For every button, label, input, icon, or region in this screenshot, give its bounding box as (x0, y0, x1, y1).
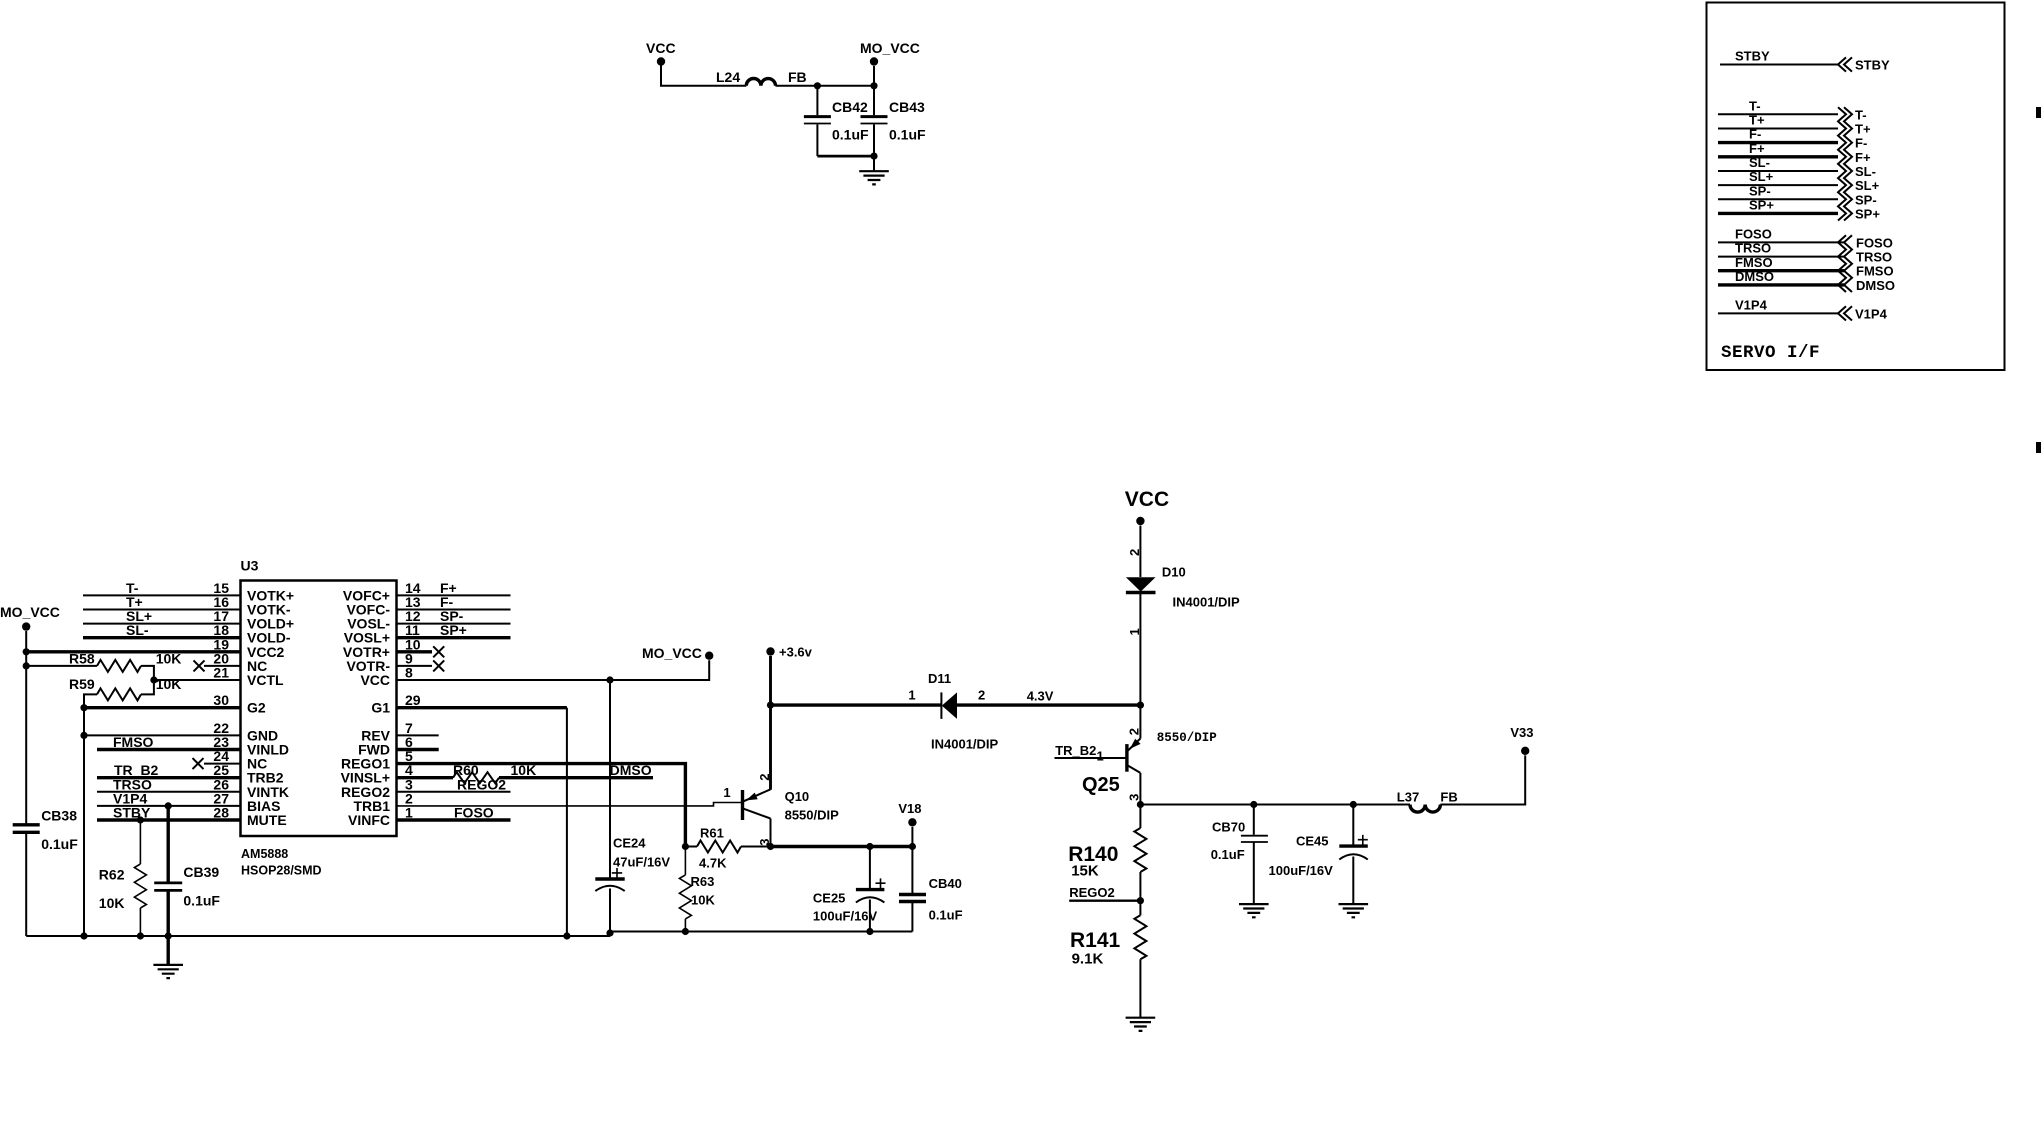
svg-text:SL-: SL- (1855, 164, 1876, 179)
svg-text:L37: L37 (1397, 790, 1419, 805)
pin 17 wire / net SL+ (83, 608, 241, 624)
svg-text:4.7K: 4.7K (699, 856, 727, 871)
svg-text:IN4001/DIP: IN4001/DIP (931, 737, 999, 752)
svg-text:15K: 15K (1071, 863, 1099, 880)
svg-text:G2: G2 (247, 700, 266, 716)
pin 20 no-connect (194, 660, 241, 671)
svg-text:0.1uF: 0.1uF (1211, 847, 1245, 862)
svg-text:F-: F- (1855, 136, 1867, 151)
node V33 (1510, 725, 1533, 755)
right pin numbers (405, 580, 421, 821)
svg-text:1: 1 (405, 805, 413, 821)
net SL- (1718, 155, 1876, 179)
svg-text:10K: 10K (156, 676, 182, 692)
svg-text:HSOP28/SMD: HSOP28/SMD (241, 864, 322, 878)
node MO_VCC (860, 40, 920, 86)
wire VCC to L24 (661, 66, 746, 86)
svg-text:SP+: SP+ (1855, 206, 1880, 221)
pin 23 wire / net FMSO (97, 734, 241, 750)
svg-text:0.1uF: 0.1uF (183, 893, 220, 909)
svg-text:IN4001/DIP: IN4001/DIP (1173, 595, 1241, 610)
net F- (1718, 127, 1867, 151)
pin 2 wire to Q10 base (397, 803, 743, 806)
wire +3.6v down to Q10 (767, 656, 774, 790)
resistor R59 (69, 676, 181, 708)
svg-text:V1P4: V1P4 (1735, 298, 1768, 313)
svg-text:SP-: SP- (1855, 192, 1877, 207)
net TRSO (1718, 241, 1892, 265)
svg-text:1: 1 (908, 688, 915, 703)
svg-text:100uF/16V: 100uF/16V (1269, 863, 1334, 878)
pin 4 wire / resistor R60 / net DMSO (397, 762, 654, 783)
ground R141 (1126, 1018, 1156, 1031)
pin 14 wire / net F+ (397, 580, 511, 596)
node MO_VCC left (0, 604, 60, 631)
svg-text:DMSO: DMSO (1735, 269, 1774, 284)
resistor R63 (679, 847, 715, 932)
pin 11 wire / net SP+ (397, 622, 511, 638)
wire L24 to MO_VCC (776, 85, 875, 87)
junction (814, 82, 821, 89)
pin 15 wire / net T- (83, 580, 241, 596)
wire bottom (817, 155, 874, 158)
node VCC right (1125, 488, 1169, 525)
junction REGO1/R61/R63 (682, 843, 689, 850)
svg-text:FOSO: FOSO (1856, 235, 1893, 250)
resistor R58 (26, 651, 181, 684)
svg-text:SL-: SL- (126, 622, 149, 638)
svg-text:STBY: STBY (1855, 58, 1890, 73)
wire L37 to V33 (1440, 755, 1525, 804)
svg-text:VCTL: VCTL (247, 672, 284, 688)
svg-text:30: 30 (213, 692, 229, 708)
pin 19 wire (26, 650, 240, 653)
svg-text:SP+: SP+ (440, 622, 467, 638)
pin 12 wire / net SP- (397, 608, 511, 624)
svg-text:8550/DIP: 8550/DIP (1157, 731, 1217, 745)
svg-text:F+: F+ (1855, 150, 1871, 165)
ground CE45 (1339, 904, 1369, 917)
capacitor CE25 (813, 847, 886, 932)
svg-text:CB40: CB40 (929, 876, 962, 891)
svg-text:1: 1 (1127, 628, 1142, 635)
capacitor CB39 (154, 802, 220, 936)
svg-text:FMSO: FMSO (1735, 255, 1773, 270)
svg-text:DMSO: DMSO (1856, 278, 1895, 293)
svg-text:R62: R62 (99, 867, 125, 883)
svg-text:V33: V33 (1510, 725, 1533, 740)
net TR_B2 base wire (1055, 743, 1127, 764)
svg-text:0.1uF: 0.1uF (929, 908, 963, 923)
pin 28 wire / net STBY (97, 805, 241, 821)
svg-text:G1: G1 (371, 700, 390, 716)
svg-text:V1P4: V1P4 (1855, 306, 1888, 321)
svg-text:CB39: CB39 (183, 864, 219, 880)
svg-text:MUTE: MUTE (247, 812, 287, 828)
svg-text:REGO2: REGO2 (457, 776, 506, 792)
node MO_VCC mid (642, 645, 713, 661)
svg-text:VCC: VCC (646, 40, 676, 56)
svg-text:SP-: SP- (1749, 183, 1771, 198)
svg-text:2: 2 (978, 688, 985, 703)
net SL+ (1718, 169, 1880, 193)
svg-text:TR_B2: TR_B2 (1055, 743, 1096, 758)
svg-text:10K: 10K (156, 651, 182, 667)
svg-text:REGO2: REGO2 (1069, 885, 1115, 900)
net REGO2 (1069, 885, 1144, 904)
node V18 (898, 801, 921, 847)
svg-text:1: 1 (723, 785, 730, 800)
ground rail left (26, 932, 610, 939)
svg-text:T-: T- (1749, 99, 1761, 114)
svg-text:D11: D11 (928, 671, 951, 686)
node +3.6v (766, 645, 812, 660)
capacitor CB70 (1211, 805, 1268, 904)
emitter rail Q10 to V18 (771, 843, 917, 850)
resistor R61 (685, 826, 770, 871)
pin 30 wire G2 (84, 706, 241, 709)
svg-text:10K: 10K (99, 895, 125, 911)
svg-text:4.3V: 4.3V (1027, 689, 1054, 704)
svg-text:Q10: Q10 (785, 789, 810, 804)
svg-text:29: 29 (405, 692, 421, 708)
svg-text:MO_VCC: MO_VCC (860, 40, 920, 56)
svg-text:MO_VCC: MO_VCC (0, 604, 60, 620)
left inner pin names (247, 587, 294, 828)
diode D11 (771, 671, 1141, 752)
pin 6 wire FWD (397, 748, 439, 751)
svg-text:SL-: SL- (1749, 155, 1770, 170)
svg-text:SL+: SL+ (1855, 178, 1880, 193)
inductor L24 (716, 69, 775, 86)
svg-text:FMSO: FMSO (1856, 264, 1894, 279)
wire VCC to D10 (1127, 526, 1142, 577)
svg-text:R58: R58 (69, 651, 95, 667)
svg-text:FMSO: FMSO (113, 734, 154, 750)
net STBY (1720, 49, 1890, 73)
svg-text:V18: V18 (898, 801, 921, 816)
edge mark bottom (2036, 442, 2041, 453)
net SP- (1718, 183, 1877, 207)
pin 8 wire VCC to MO_VCC (397, 660, 710, 683)
node VCC (646, 40, 676, 66)
svg-text:CB42: CB42 (832, 99, 868, 115)
svg-text:DMSO: DMSO (610, 762, 652, 778)
svg-text:9.1K: 9.1K (1072, 951, 1104, 968)
svg-text:0.1uF: 0.1uF (41, 836, 78, 852)
IC U3 body (241, 581, 397, 837)
svg-text:F-: F- (1749, 127, 1761, 142)
net T- (1718, 99, 1867, 123)
capacitor CB38 (13, 808, 79, 937)
svg-text:0.1uF: 0.1uF (832, 127, 869, 143)
diode D10 (1126, 565, 1240, 610)
net FOSO (1718, 227, 1893, 251)
capacitor CE45 (1269, 805, 1368, 904)
svg-text:0.1uF: 0.1uF (889, 127, 926, 143)
svg-text:T-: T- (1855, 107, 1867, 122)
left pin numbers (213, 580, 229, 821)
svg-text:47uF/16V: 47uF/16V (613, 855, 670, 870)
pin 22 wire GND (84, 734, 241, 736)
chevron chain right-pointing for T-..SP+ (1838, 107, 1846, 220)
net T+ (1718, 113, 1871, 137)
right inner pin names (341, 587, 391, 828)
pin 3 wire / net REGO2 (397, 776, 511, 792)
svg-text:F+: F+ (1749, 141, 1765, 156)
net V1P4 (1718, 298, 1888, 322)
net SP+ (1718, 198, 1880, 222)
wire junction to Q25 emitter (1127, 705, 1142, 738)
svg-text:TRSO: TRSO (1856, 250, 1892, 265)
wire MO_VCC vertical (23, 631, 30, 825)
transistor Q25 (1082, 731, 1217, 805)
svg-text:MO_VCC: MO_VCC (642, 645, 702, 661)
pin 10 no-connect (397, 646, 445, 657)
resistor R140 (1068, 805, 1146, 901)
svg-text:FOSO: FOSO (1735, 227, 1772, 242)
pin 18 wire / net SL- (83, 622, 241, 638)
transistor Q10 (723, 773, 839, 850)
svg-text:L24: L24 (716, 69, 740, 85)
chevron chain left-pointing for FOSO..DMSO (1838, 235, 1846, 292)
pin 16 wire / net T+ (83, 594, 241, 610)
svg-text:VCC: VCC (1125, 488, 1169, 511)
svg-text:T+: T+ (1749, 113, 1765, 128)
svg-text:100uF/16V: 100uF/16V (813, 909, 878, 924)
svg-text:10K: 10K (691, 893, 715, 908)
ground (859, 156, 889, 184)
svg-text:TRSO: TRSO (1735, 241, 1771, 256)
pin 1 wire / net FOSO (397, 805, 511, 821)
pin 26 wire / net TRSO (97, 776, 241, 792)
inductor L37 (1397, 790, 1458, 813)
frame SERVO I/F (1707, 3, 2005, 371)
collector junction (1137, 801, 1144, 808)
net F+ (1718, 141, 1871, 165)
pin 9 no-connect (397, 660, 445, 671)
capacitor CB40 (899, 847, 963, 932)
wire D10 to junction (1127, 593, 1144, 709)
output rail to V33 (1140, 801, 1410, 808)
svg-text:SP+: SP+ (1749, 198, 1774, 213)
svg-text:CB70: CB70 (1212, 820, 1245, 835)
edge mark top (2036, 107, 2041, 118)
pin 25 wire / net TR_B2 (97, 762, 241, 778)
junction G2 (80, 704, 87, 711)
net DMSO (1718, 269, 1895, 293)
svg-text:D10: D10 (1162, 565, 1186, 580)
pin 27 wire / net V1P4 (97, 790, 241, 806)
svg-text:R59: R59 (69, 676, 95, 692)
svg-text:FOSO: FOSO (454, 805, 494, 821)
svg-text:2: 2 (1127, 728, 1142, 735)
ground symbol left (153, 936, 183, 978)
svg-text:8550/DIP: 8550/DIP (785, 808, 840, 823)
svg-text:VCC: VCC (360, 672, 390, 688)
pin 24 no-connect (193, 758, 241, 769)
resistor R141 (1070, 901, 1146, 1018)
svg-text:CE45: CE45 (1296, 833, 1329, 848)
svg-text:R141: R141 (1070, 929, 1121, 952)
svg-text:SERVO I/F: SERVO I/F (1721, 343, 1820, 363)
pin 21 wire (154, 679, 241, 681)
pin 29 wire G1 (397, 708, 567, 936)
svg-text:R63: R63 (691, 874, 715, 889)
pin 5 wire REGO1 (397, 764, 686, 847)
svg-text:+3.6v: +3.6v (779, 645, 813, 660)
svg-text:3: 3 (1126, 794, 1141, 801)
svg-text:CE24: CE24 (613, 836, 646, 851)
svg-text:10K: 10K (511, 762, 537, 778)
svg-text:2: 2 (1127, 549, 1142, 556)
svg-text:1: 1 (1097, 749, 1104, 764)
capacitor CB42 (804, 86, 869, 156)
svg-text:R61: R61 (700, 826, 724, 841)
svg-text:Q25: Q25 (1082, 774, 1120, 796)
svg-text:STBY: STBY (1735, 49, 1770, 64)
capacitor CB43 (861, 86, 927, 156)
rail right section (606, 928, 912, 937)
svg-text:STBY: STBY (113, 805, 151, 821)
capacitor CE24 (595, 680, 670, 936)
pin 7 wire REV (397, 734, 439, 736)
svg-text:FB: FB (1440, 790, 1457, 805)
svg-text:FB: FB (788, 69, 807, 85)
ground CB70 (1239, 904, 1269, 917)
pin 13 wire / net F- (397, 594, 511, 610)
svg-text:VINFC: VINFC (348, 812, 390, 828)
svg-text:SL+: SL+ (1749, 169, 1774, 184)
svg-text:CB38: CB38 (41, 808, 77, 824)
resistor R62 (99, 816, 147, 936)
svg-text:U3: U3 (241, 558, 259, 574)
svg-text:CE25: CE25 (813, 891, 846, 906)
svg-text:2: 2 (757, 773, 772, 780)
net FMSO (1718, 255, 1894, 279)
svg-text:AM5888: AM5888 (241, 847, 288, 861)
svg-text:CB43: CB43 (889, 99, 925, 115)
svg-text:T+: T+ (1855, 122, 1871, 137)
wire G2 down to GND row (83, 708, 85, 936)
